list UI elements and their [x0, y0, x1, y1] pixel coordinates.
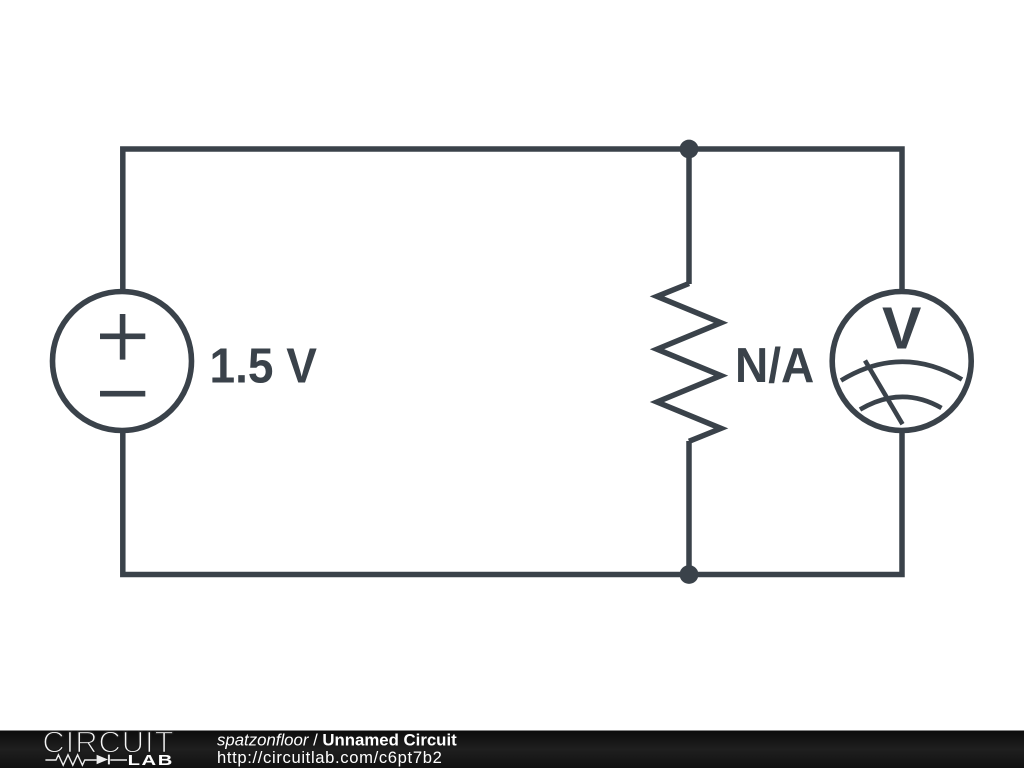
node B: bottom junction dot: [680, 565, 699, 584]
node A: top junction dot: [680, 140, 699, 159]
logo schematic: diode cathode bar: [108, 755, 110, 765]
logo schematic: wire with resistor zigzag: [45, 755, 127, 765]
voltage source V1: circle body: [53, 292, 192, 431]
wire: voltmeter VM1 bottom lead + bottom-right horizontal segment to node B: [689, 428, 902, 575]
footer bar: [0, 731, 1024, 768]
voltmeter VM1: lower scale arc: [860, 397, 942, 410]
logo schematic: diode triangle: [97, 755, 108, 764]
voltmeter VM1: needle: [865, 361, 903, 425]
resistor R1: zigzag body: [657, 284, 721, 442]
svg-text:spatzonfloor / Unnamed Circuit: spatzonfloor / Unnamed Circuit: [217, 731, 457, 750]
voltage source V1: plus sign: [100, 314, 145, 360]
svg-text:http://circuitlab.com/c6pt7b2: http://circuitlab.com/c6pt7b2: [217, 748, 442, 767]
voltmeter VM1: upper scale arc: [841, 362, 962, 381]
svg-text:LAB: LAB: [128, 751, 174, 768]
wire: V1 top lead + top-left horizontal segment to node A: [123, 149, 689, 294]
wire: top-right horizontal segment from node A + voltmeter VM1 top lead: [689, 149, 902, 294]
wire: resistor R1 top lead from node A: [686, 149, 692, 284]
svg-text:V: V: [882, 296, 921, 362]
wire: resistor R1 bottom lead to node B: [686, 441, 692, 575]
voltmeter VM1: circle body: [832, 292, 971, 431]
svg-text:1.5 V: 1.5 V: [210, 339, 318, 394]
wire: V1 bottom lead + bottom-left horizontal segment to node B: [123, 428, 689, 575]
voltage source V1: minus sign: [100, 391, 145, 397]
svg-text:N/A: N/A: [735, 339, 814, 394]
